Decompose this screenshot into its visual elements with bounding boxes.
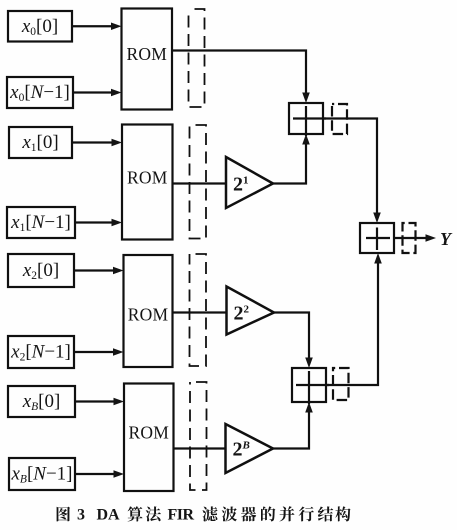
wire ROM1 output to adder A1 top [172, 51, 310, 104]
output wire Y [394, 229, 453, 249]
svg-text:ROM: ROM [127, 168, 168, 188]
svg-text:x1[0]: x1[0] [21, 132, 58, 154]
wire ROM4 output to amplifier 2^B [174, 447, 226, 449]
caption: figure 3 DA algorithm FIR filter parallel structure [57, 506, 351, 523]
svg-text:x2[N−1]: x2[N−1] [10, 342, 71, 364]
wire ROM3 output to amplifier 2^2 [173, 311, 227, 313]
wire x2[N-1] to ROM [74, 348, 124, 356]
adder A1 [289, 103, 326, 136]
svg-text:x0[N−1]: x0[N−1] [9, 82, 70, 104]
adder A3 [360, 223, 394, 253]
scaling amplifier 2^2 [227, 287, 275, 335]
wire amplifier 2^2 to adder A2 top [274, 313, 313, 369]
scaling amplifier 2^B [226, 424, 274, 473]
wire x0[0] to ROM [72, 22, 122, 30]
wire xB[0] to ROM [75, 398, 124, 406]
input register box x1[0] [9, 127, 72, 158]
input register box xB[N-1] [9, 458, 75, 490]
input register box x2[N-1] [8, 336, 74, 368]
input register box x0[0] [8, 11, 72, 42]
wire amplifier 2^1 to adder A1 bottom [273, 134, 310, 184]
svg-text:xB[N−1]: xB[N−1] [10, 464, 72, 486]
scaling amplifier 2^1 [226, 157, 273, 208]
input register box x0[N-1] [7, 77, 73, 108]
dashed pipeline register column 2 [190, 125, 207, 239]
svg-text:xB[0]: xB[0] [22, 391, 61, 413]
svg-text:ROM: ROM [127, 44, 168, 64]
input register box xB[0] [8, 386, 75, 417]
adder A2 [292, 368, 329, 404]
wire x1[N-1] to ROM [75, 219, 122, 227]
dashed output register S3 [403, 223, 416, 253]
input register box x1[N-1] [7, 207, 75, 238]
svg-text:Y: Y [440, 229, 453, 249]
svg-text:3: 3 [77, 507, 85, 524]
wire x0[N-1] to ROM [73, 89, 122, 97]
wire adder A2 to adder A3 bottom [326, 253, 382, 385]
wire adder A1 to adder A3 top [323, 119, 381, 224]
svg-text:22: 22 [234, 303, 250, 325]
dashed pipeline register column 4 [190, 382, 207, 490]
wire ROM2 output to amplifier 2^1 [173, 182, 227, 184]
ROM 3 [124, 255, 173, 367]
wire x2[0] to ROM [74, 267, 124, 275]
svg-text:2B: 2B [233, 439, 250, 461]
wire amplifier 2^B to adder A2 bottom [273, 402, 313, 449]
wire xB[N-1] to ROM [75, 470, 124, 478]
ROM 2 [122, 125, 173, 240]
svg-text:ROM: ROM [129, 423, 170, 443]
svg-text:x1[N−1]: x1[N−1] [10, 212, 71, 234]
svg-text:FIR: FIR [168, 507, 195, 524]
wire x1[0] to ROM [72, 139, 122, 147]
svg-text:x2[0]: x2[0] [22, 260, 59, 282]
ROM 4 [124, 384, 174, 492]
ROM 1 [122, 9, 173, 110]
svg-text:x0[0]: x0[0] [21, 16, 58, 38]
dashed output register S2 [333, 368, 349, 400]
dashed pipeline register column 1 [189, 9, 205, 107]
svg-text:ROM: ROM [128, 305, 169, 325]
svg-text:21: 21 [233, 174, 249, 196]
svg-text:DA: DA [97, 507, 121, 524]
input register box x2[0] [8, 254, 74, 287]
dashed output register S1 [332, 104, 347, 134]
dashed pipeline register column 3 [190, 254, 207, 366]
